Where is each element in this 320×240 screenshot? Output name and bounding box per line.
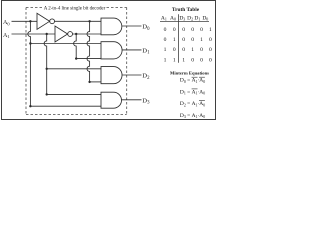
svg-text:0: 0	[164, 37, 167, 43]
svg-text:1: 1	[209, 27, 212, 33]
svg-text:1: 1	[191, 47, 194, 53]
svg-text:D3: D3	[179, 15, 185, 21]
svg-text:A1: A1	[161, 15, 167, 21]
svg-text:D2: D2	[142, 73, 150, 81]
svg-text:1: 1	[173, 57, 176, 63]
svg-text:1: 1	[182, 57, 185, 63]
svg-text:Minterm Equations: Minterm Equations	[170, 72, 209, 77]
svg-text:1: 1	[200, 37, 203, 43]
svg-text:0: 0	[182, 37, 185, 43]
svg-text:1: 1	[164, 57, 167, 63]
svg-text:0: 0	[209, 37, 212, 43]
svg-text:A1: A1	[3, 33, 10, 39]
svg-text:0: 0	[182, 27, 185, 33]
svg-text:D1: D1	[194, 15, 200, 21]
svg-text:1: 1	[164, 47, 167, 53]
svg-text:0: 0	[191, 27, 194, 33]
svg-text:0: 0	[200, 57, 203, 63]
svg-text:0: 0	[182, 47, 185, 53]
svg-text:D2 = A1·A0: D2 = A1·A0	[180, 101, 205, 107]
svg-text:D3 = A1·A0: D3 = A1·A0	[180, 113, 205, 119]
svg-text:D1 = A1·A0: D1 = A1·A0	[180, 89, 205, 95]
svg-text:0: 0	[173, 47, 176, 53]
svg-text:A0: A0	[170, 15, 176, 21]
svg-text:Truth Table: Truth Table	[172, 7, 200, 13]
svg-text:0: 0	[209, 47, 212, 53]
svg-text:0: 0	[209, 57, 212, 63]
svg-text:D3: D3	[142, 97, 150, 105]
svg-text:0: 0	[173, 27, 176, 33]
svg-text:D1: D1	[142, 47, 150, 55]
svg-text:A0: A0	[3, 20, 10, 26]
svg-text:0: 0	[200, 47, 203, 53]
svg-text:D2: D2	[187, 15, 193, 21]
svg-text:1: 1	[173, 37, 176, 43]
svg-text:0: 0	[191, 57, 194, 63]
svg-text:D0 = A1·A0: D0 = A1·A0	[180, 78, 205, 84]
svg-text:0: 0	[200, 27, 203, 33]
svg-text:0: 0	[191, 37, 194, 43]
svg-text:A 2-to-4 line single bit decod: A 2-to-4 line single bit decoder	[44, 7, 106, 12]
svg-text:D0: D0	[202, 15, 208, 21]
svg-text:0: 0	[164, 27, 167, 33]
svg-text:D0: D0	[142, 24, 150, 32]
